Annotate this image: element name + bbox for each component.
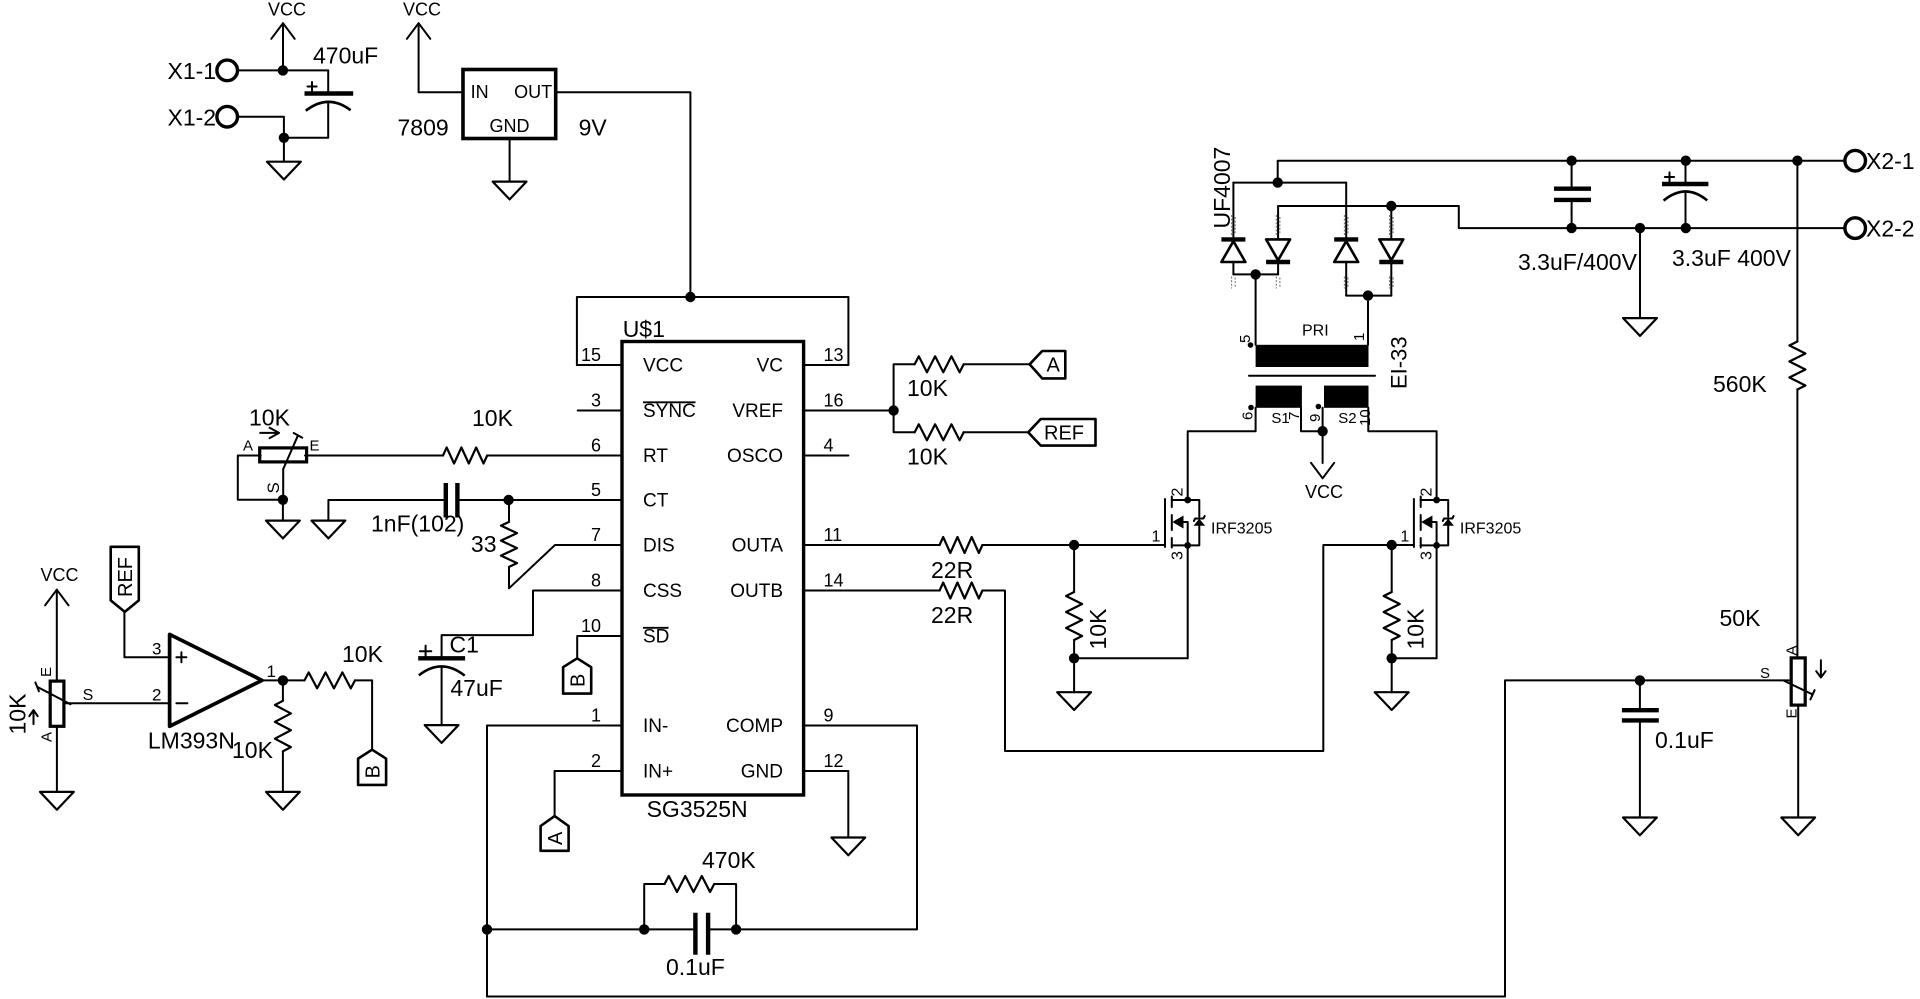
capacitor 0.1uF right <box>1622 680 1714 817</box>
capacitor 0.1uF feedback <box>666 913 725 980</box>
svg-text:1: 1 <box>1351 333 1368 341</box>
wire resistor33 to DIS pin7 <box>509 545 622 588</box>
node PRI1 junction <box>1363 290 1373 300</box>
svg-text:IN-: IN- <box>643 716 668 737</box>
ground 0.1uF right <box>1623 818 1657 836</box>
ground pot RT <box>266 500 300 539</box>
capacitor C1 47uF <box>418 631 503 725</box>
wire VREF pin16 <box>804 410 894 412</box>
resistor 10K RT <box>443 405 514 464</box>
svg-text:470uF: 470uF <box>313 43 378 69</box>
resistor 33 <box>471 522 517 567</box>
wire X1-1 to cap <box>238 69 329 71</box>
wire VREF up branch <box>894 364 915 410</box>
diode D4 UF4007 <box>1379 206 1403 296</box>
svg-text:3: 3 <box>1419 551 1436 560</box>
wire 7809 OUT to VCC rail <box>556 92 691 297</box>
svg-text:DIS: DIS <box>643 536 675 557</box>
svg-text:IN+: IN+ <box>643 762 673 783</box>
wire PRI pin5 up <box>1255 274 1257 344</box>
svg-text:SYNC: SYNC <box>643 401 696 422</box>
svg-text:SD: SD <box>643 627 669 648</box>
svg-text:8: 8 <box>591 571 601 591</box>
svg-text:EI-33: EI-33 <box>1387 336 1412 389</box>
svg-text:GND: GND <box>490 116 530 136</box>
power VCC center tap <box>1305 431 1343 502</box>
svg-text:10K: 10K <box>342 641 384 667</box>
capacitor 3.3uF/400V <box>1518 161 1638 275</box>
svg-text:VCC: VCC <box>268 0 306 20</box>
resistor 10K output to B <box>305 641 384 688</box>
wire Q2 drain to transformer <box>1368 408 1436 500</box>
svg-text:14: 14 <box>824 571 844 591</box>
svg-text:A: A <box>1783 645 1800 655</box>
wire pin4 OSCO stub <box>804 455 849 457</box>
connector X2-2 <box>1845 215 1915 241</box>
capacitor 1nF(102) <box>371 483 464 537</box>
svg-text:6: 6 <box>1240 412 1257 420</box>
resistor 10K to REF <box>907 424 964 469</box>
svg-text:IN: IN <box>471 82 489 102</box>
node 560K top junction <box>1792 156 1802 166</box>
svg-text:33: 33 <box>471 531 497 557</box>
svg-text:50K: 50K <box>1720 605 1762 631</box>
svg-text:7: 7 <box>591 525 601 545</box>
wire resistor to B flag <box>355 680 372 749</box>
wire op-amp output <box>262 679 305 681</box>
wire Q1 source down <box>1187 545 1189 658</box>
resistor 470K feedback <box>644 847 756 929</box>
ground pot LM393 <box>40 792 74 810</box>
svg-text:10K: 10K <box>472 405 514 431</box>
node cap right junction <box>731 924 741 934</box>
svg-text:560K: 560K <box>1713 371 1767 397</box>
svg-text:RT: RT <box>643 446 668 467</box>
svg-text:1: 1 <box>1152 529 1161 546</box>
connector X2-1 <box>1845 148 1915 174</box>
svg-text:15: 15 <box>581 345 601 365</box>
node cap3 bottom <box>1566 223 1576 233</box>
wire OUTA pin11 <box>804 544 940 546</box>
wire REF flag to pin3 <box>124 612 169 657</box>
svg-text:1: 1 <box>1400 529 1409 546</box>
op-amp LM393N <box>148 634 276 753</box>
pin numbers SG3525N right <box>824 345 844 771</box>
wire CT to resistor33 <box>508 500 510 522</box>
svg-text:GND: GND <box>741 762 783 783</box>
svg-text:IRF3205: IRF3205 <box>1460 521 1521 538</box>
node cathode bus junction <box>1273 177 1283 187</box>
svg-text:X1-2: X1-2 <box>168 104 217 130</box>
svg-text:X2-2: X2-2 <box>1866 215 1915 241</box>
node feedback left junction <box>482 924 492 934</box>
svg-text:PRI: PRI <box>1302 323 1329 340</box>
wire OUTB pin14 <box>804 590 940 592</box>
svg-text:22R: 22R <box>931 557 973 583</box>
svg-text:13: 13 <box>824 345 844 365</box>
transistor Q1 IRF3205 <box>1152 488 1273 561</box>
wire GND pin12 <box>804 771 849 838</box>
wire COMP pin9 <box>709 726 917 930</box>
wire VREF down branch <box>894 411 915 433</box>
svg-text:10K: 10K <box>1402 608 1428 650</box>
potentiometer 10K RT <box>243 405 320 494</box>
svg-text:LM393N: LM393N <box>148 728 235 754</box>
wire pulldown2 to source <box>1392 640 1437 658</box>
svg-text:S1: S1 <box>1271 410 1289 427</box>
wire D3 D4 to PRI1 <box>1346 295 1391 297</box>
resistor 10K gate2 pulldown <box>1384 545 1429 650</box>
svg-text:0.1uF: 0.1uF <box>666 954 725 980</box>
wire pin13 stub <box>804 364 849 366</box>
svg-text:A: A <box>545 831 567 845</box>
svg-text:9: 9 <box>1307 414 1324 422</box>
svg-text:S2: S2 <box>1338 410 1356 427</box>
wire cathode bus D1 D3 <box>1233 182 1346 184</box>
node gate1 junction <box>1069 540 1079 550</box>
svg-text:2: 2 <box>1419 488 1436 497</box>
wire SD pin10 to flag <box>577 636 622 658</box>
node B flag LM393 <box>358 750 386 785</box>
svg-text:1nF(102): 1nF(102) <box>371 511 464 537</box>
ground CT <box>312 521 346 539</box>
wire resistor to RT pin6 <box>487 455 622 457</box>
wire pot E to resistor <box>305 455 443 457</box>
wire PRI pin1 up <box>1367 296 1369 345</box>
node X2-2 ground junction <box>1635 223 1645 233</box>
wire S2 pin9 center tap <box>1322 408 1324 431</box>
svg-text:3: 3 <box>1170 551 1187 560</box>
capacitor 3.3uF 400V polarized <box>1662 161 1792 271</box>
svg-text:OUT: OUT <box>514 82 552 102</box>
svg-text:VC: VC <box>757 356 783 377</box>
node REF flag <box>1028 419 1095 446</box>
node cap3 top <box>1566 156 1576 166</box>
transformer EI-33 <box>1237 323 1412 428</box>
wire IN- pin1 down <box>487 726 622 997</box>
transistor Q2 IRF3205 <box>1400 488 1521 561</box>
diode D2 UF4007 <box>1266 206 1290 274</box>
node PRI5 junction <box>1250 269 1260 279</box>
wire pot wiper <box>282 469 284 500</box>
power VCC <box>268 0 306 70</box>
svg-text:2: 2 <box>1170 488 1187 497</box>
wire VCC to 7809 IN <box>419 91 463 93</box>
ground GND pin12 <box>831 838 865 856</box>
ground X2-2 <box>1623 228 1657 336</box>
svg-text:C1: C1 <box>450 631 479 657</box>
resistor 10K pulldown LM393 <box>232 680 291 763</box>
svg-text:VCC: VCC <box>643 356 683 377</box>
svg-text:9: 9 <box>824 706 834 726</box>
svg-text:1: 1 <box>267 662 276 681</box>
node X1 ground junction <box>279 133 289 143</box>
potentiometer 50K <box>1720 605 1826 719</box>
svg-text:10: 10 <box>581 616 601 636</box>
resistor 560K <box>1713 161 1805 397</box>
svg-text:3: 3 <box>591 391 601 411</box>
regulator 7809 <box>398 70 608 141</box>
diode lead tick marks <box>1232 215 1394 289</box>
svg-text:10K: 10K <box>907 444 949 470</box>
svg-text:COMP: COMP <box>726 716 783 737</box>
node D4 junction <box>1386 201 1396 211</box>
potentiometer 10K LM393 <box>5 667 94 742</box>
svg-text:X1-1: X1-1 <box>168 58 217 84</box>
wire X1-2 <box>238 117 284 138</box>
svg-text:12: 12 <box>824 751 844 771</box>
svg-text:S: S <box>264 482 283 493</box>
svg-text:E: E <box>310 438 320 455</box>
wire pot A to ground <box>56 726 58 792</box>
svg-text:9V: 9V <box>579 114 608 140</box>
svg-text:VCC: VCC <box>1305 482 1343 502</box>
svg-text:3.3uF 400V: 3.3uF 400V <box>1672 245 1792 271</box>
svg-text:10K: 10K <box>5 693 31 735</box>
resistor 22R OUTA <box>931 537 982 583</box>
svg-text:OSCO: OSCO <box>727 446 783 467</box>
svg-text:10: 10 <box>1357 409 1374 426</box>
pin names SG3525N left <box>643 356 696 783</box>
svg-text:5: 5 <box>1237 335 1254 343</box>
wire X2-1 rail <box>1278 161 1845 183</box>
wire resistor to ground <box>282 751 284 792</box>
svg-text:1: 1 <box>591 706 601 726</box>
IC U$1 SG3525N <box>622 316 804 822</box>
svg-text:2: 2 <box>152 686 161 705</box>
node A flag IN+ <box>541 816 569 851</box>
svg-text:E: E <box>38 667 55 677</box>
svg-text:22R: 22R <box>931 602 973 628</box>
wire S1 pin7 to center tap <box>1301 408 1323 431</box>
wire Q2 source down <box>1436 545 1438 658</box>
node B flag SD <box>563 658 591 693</box>
node A flag <box>1030 351 1066 378</box>
wire pin15 stub <box>577 364 622 366</box>
ground pot 50K <box>1781 705 1815 835</box>
node cap left junction <box>639 924 649 934</box>
power VCC 7809 <box>403 0 441 92</box>
svg-text:U$1: U$1 <box>623 316 665 342</box>
node 0.1uF junction <box>1635 675 1645 685</box>
node REF flag LM393 <box>111 547 139 612</box>
node output junction <box>278 675 288 685</box>
svg-text:10K: 10K <box>1085 608 1111 650</box>
wire pin3 SYNC stub <box>578 410 622 412</box>
wire pot A loop <box>238 456 283 500</box>
svg-text:10K: 10K <box>907 375 949 401</box>
diode D1 UF4007 <box>1221 183 1245 275</box>
svg-text:VREF: VREF <box>732 401 783 422</box>
wire D1 D2 to PRI5 <box>1233 273 1278 275</box>
resistor 10K gate1 pulldown <box>1066 545 1111 650</box>
wire 22R to gate1 <box>982 544 1165 546</box>
wire CSS pin8 to C1 <box>442 591 622 657</box>
node VCC junction <box>278 65 288 75</box>
svg-text:S: S <box>83 687 94 704</box>
resistor 22R OUTB <box>931 583 982 629</box>
svg-text:REF: REF <box>115 557 137 597</box>
connector X1-2 <box>168 104 238 130</box>
svg-text:6: 6 <box>591 436 601 456</box>
svg-text:470K: 470K <box>702 847 756 873</box>
node VREF junction <box>888 405 898 415</box>
svg-text:7809: 7809 <box>398 114 449 140</box>
svg-text:11: 11 <box>824 525 843 545</box>
svg-text:OUTB: OUTB <box>730 581 783 602</box>
ground pulldown2 <box>1375 658 1409 710</box>
svg-text:REF: REF <box>1044 423 1084 445</box>
svg-text:X2-1: X2-1 <box>1866 148 1915 174</box>
pin numbers SG3525N left <box>581 345 601 771</box>
svg-text:47uF: 47uF <box>450 675 502 701</box>
wire VCC/VC top rail <box>577 297 849 365</box>
svg-text:B: B <box>362 765 384 778</box>
resistor 10K to A <box>907 356 964 401</box>
svg-text:A: A <box>38 732 55 742</box>
svg-text:OUTA: OUTA <box>732 536 784 557</box>
svg-text:CT: CT <box>643 491 669 512</box>
svg-text:4: 4 <box>824 436 834 456</box>
node center tap junction <box>1317 426 1327 436</box>
wire IN+ pin2 to flag <box>555 771 622 816</box>
diode D3 UF4007 <box>1334 183 1358 296</box>
node cap4 bottom <box>1681 223 1691 233</box>
node gate2 junction <box>1387 540 1397 550</box>
ground 10K LM393 <box>266 792 300 810</box>
capacitor 470uF <box>284 43 378 138</box>
wire cap to CT pin5 <box>459 499 622 501</box>
svg-text:3.3uF/400V: 3.3uF/400V <box>1518 249 1638 275</box>
node CT junction <box>503 495 513 505</box>
svg-text:10K: 10K <box>249 405 291 431</box>
svg-text:5: 5 <box>591 480 601 500</box>
wire feedback row left <box>487 928 694 930</box>
svg-text:3: 3 <box>152 640 161 659</box>
svg-text:IRF3205: IRF3205 <box>1211 521 1272 538</box>
svg-text:A: A <box>243 438 253 455</box>
svg-text:16: 16 <box>824 391 844 411</box>
svg-text:A: A <box>1047 355 1061 377</box>
wire pot S to IN- pin2 <box>66 702 170 704</box>
ground X1 <box>267 138 301 180</box>
svg-text:0.1uF: 0.1uF <box>1655 727 1714 753</box>
wire 560K to pot <box>1796 390 1798 658</box>
svg-text:SG3525N: SG3525N <box>647 796 748 822</box>
wire to REF flag <box>964 431 1028 433</box>
wire bottom run to 50K wiper <box>487 680 1791 996</box>
node pot S junction <box>278 495 288 505</box>
ground pulldown1 <box>1057 658 1091 710</box>
wire 22R to gate2 <box>982 545 1414 751</box>
node pulldown1 junction <box>1069 653 1079 663</box>
node pulldown2 junction <box>1387 653 1397 663</box>
ground 7809 GND <box>493 139 527 200</box>
ground C1 <box>425 725 459 743</box>
node cap4 top <box>1681 156 1691 166</box>
connector X1-1 <box>168 58 238 84</box>
wire anode bus D2 D4 to X2-2 rail <box>1278 206 1845 228</box>
svg-text:10K: 10K <box>232 737 274 763</box>
svg-text:CSS: CSS <box>643 581 682 602</box>
wire to A flag <box>964 363 1030 365</box>
power VCC LM393 <box>41 565 79 681</box>
svg-text:2: 2 <box>591 751 601 771</box>
wire Q1 drain to transformer <box>1188 408 1256 500</box>
svg-text:VCC: VCC <box>41 565 79 585</box>
svg-text:VCC: VCC <box>403 0 441 20</box>
wire pulldown1 to source <box>1074 640 1188 658</box>
wire CT left to ground <box>328 500 444 521</box>
pin names SG3525N right <box>726 356 783 783</box>
node rail junction <box>685 292 695 302</box>
svg-text:B: B <box>567 674 589 687</box>
